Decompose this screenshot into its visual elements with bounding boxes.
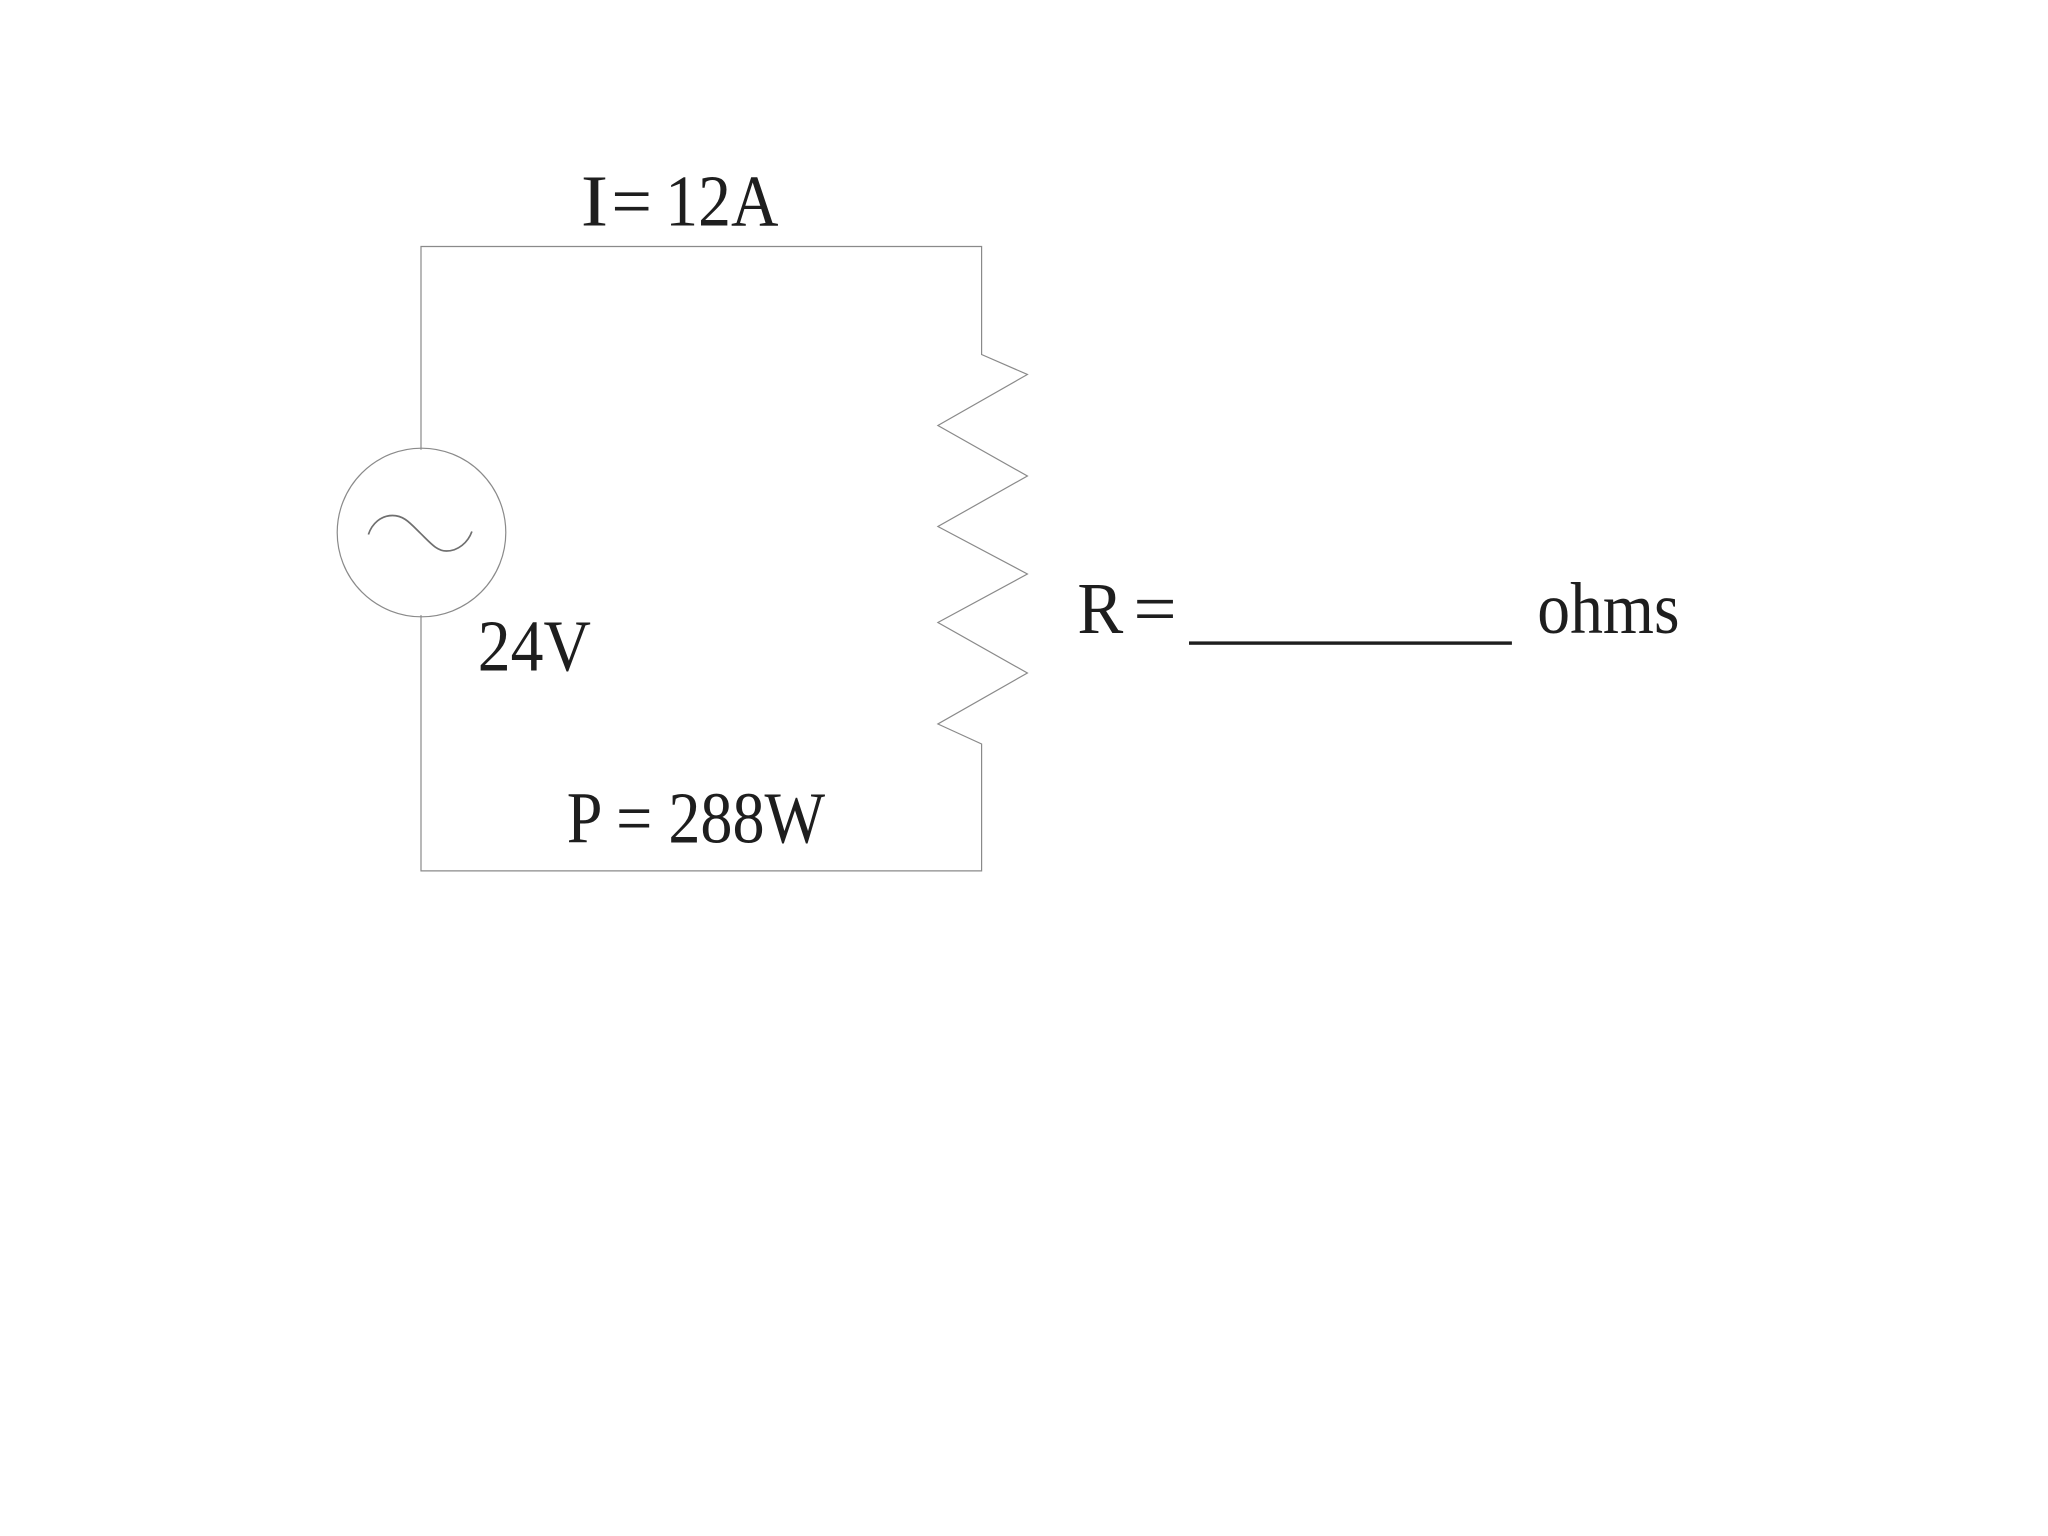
svg-text:=: = bbox=[1133, 568, 1176, 649]
svg-text:12A: 12A bbox=[665, 161, 778, 242]
svg-text:I: I bbox=[581, 160, 608, 242]
svg-text:=: = bbox=[611, 160, 652, 242]
svg-text:R: R bbox=[1077, 569, 1123, 650]
svg-text:P = 288W: P = 288W bbox=[567, 778, 825, 859]
svg-text:24V: 24V bbox=[478, 606, 591, 687]
svg-text:ohms: ohms bbox=[1537, 568, 1679, 649]
